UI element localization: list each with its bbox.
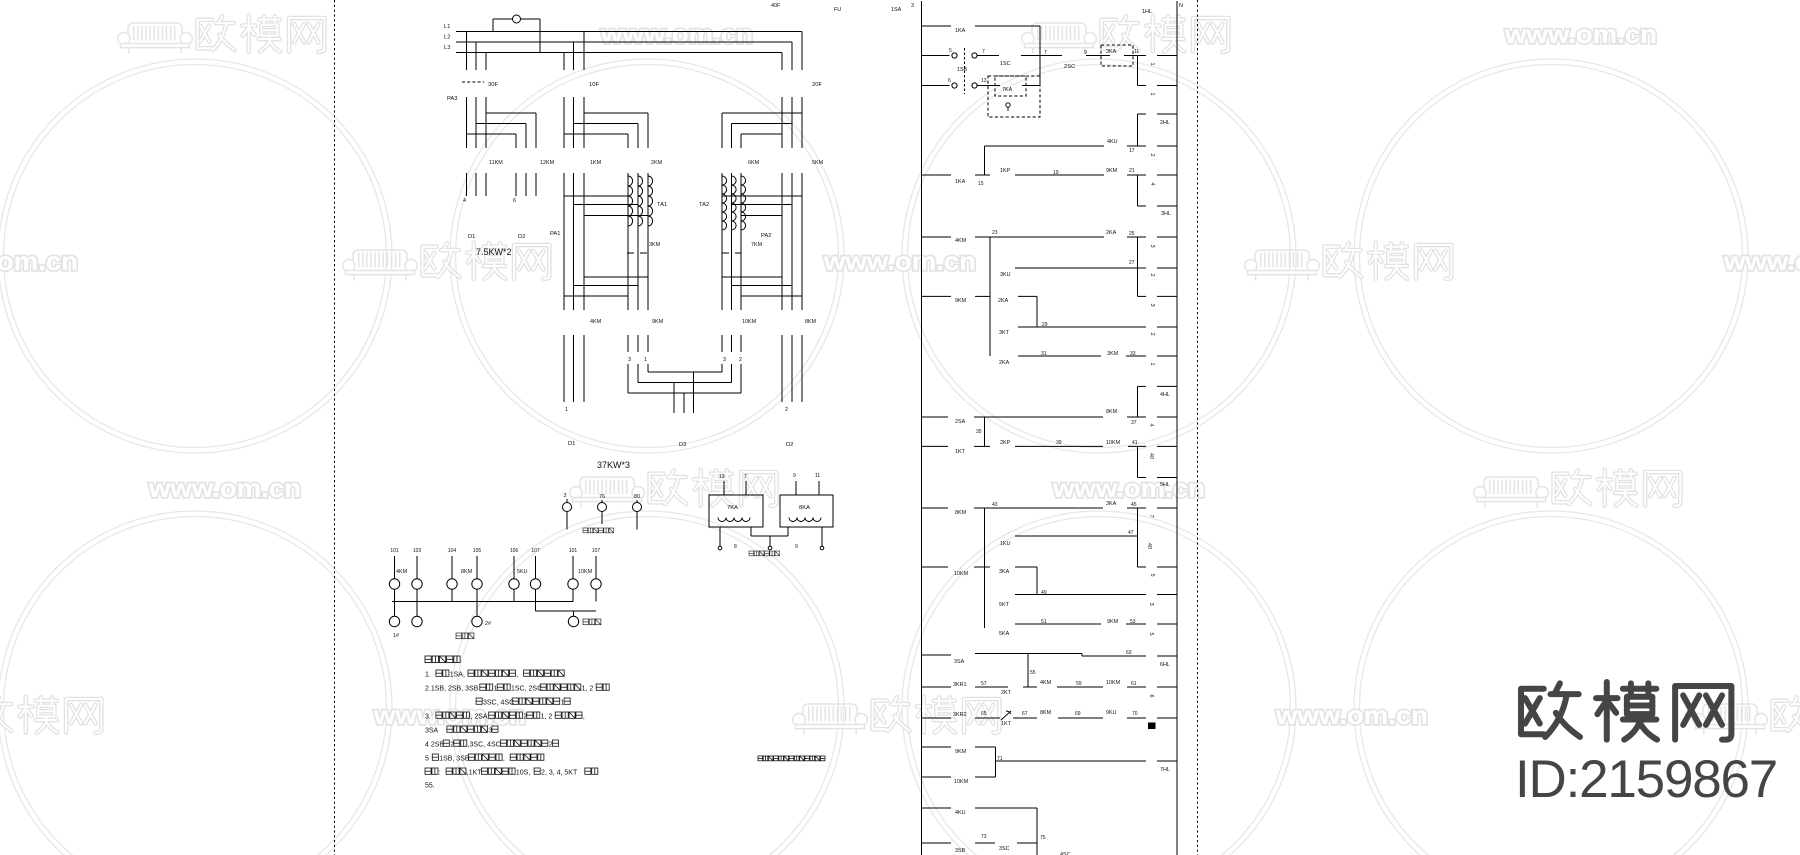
svg-text:www.om.cn: www.om.cn [1275,700,1428,730]
svg-text:2: 2 [785,407,788,413]
svg-text:1SB: 1SB [957,67,968,73]
svg-text:4KM: 4KM [1040,680,1052,686]
svg-text:35: 35 [976,429,982,435]
motor bus wires [648,371,722,373]
svg-text:,1KT: ,1KT [467,769,483,776]
rung 1KA latch wire [922,25,952,27]
svg-text:10KM: 10KM [578,569,593,575]
relay 7KA box [709,495,763,527]
svg-text:1: 1 [565,407,568,413]
svg-text:7: 7 [744,474,747,480]
rung 3SA-6HL [922,654,952,656]
rung 1KT-2KP-10KM [922,445,949,447]
svg-text:2, 3, 4, 5KT: 2, 3, 4, 5KT [541,769,578,776]
svg-text:27: 27 [1129,260,1135,266]
svg-text:3KM: 3KM [649,242,661,248]
svg-text:45: 45 [1131,502,1137,508]
svg-text:D1: D1 [468,234,475,240]
svg-text:75: 75 [1040,835,1046,841]
svg-text:1SC, 2SC: 1SC, 2SC [511,685,542,692]
svg-text:10S,: 10S, [516,769,530,776]
big watermark text OuMoWang [1521,683,1580,737]
rung start-stop: button 1SB [922,55,950,57]
svg-text:3KA: 3KA [1106,49,1117,55]
junction vertical 35 [984,417,986,446]
ladder left rail [921,1,923,855]
svg-text:5KA: 5KA [999,631,1010,637]
svg-text:9: 9 [793,473,796,479]
svg-text:9: 9 [795,544,798,550]
rung 3SB-3SC [922,842,952,844]
svg-text:5: 5 [1148,632,1154,635]
rung 10KM-3KA [922,566,949,568]
svg-text:1SB, 3SB: 1SB, 3SB [439,755,470,762]
svg-text:7KA: 7KA [727,505,738,511]
svg-text:L2: L2 [444,35,450,41]
svg-text:9KU: 9KU [1106,710,1117,716]
junction vertical 43 [984,508,986,628]
svg-text:1SC: 1SC [1000,61,1011,67]
rung 2SA-8KM [922,416,949,418]
svg-text:15: 15 [978,181,984,187]
svg-text:51: 51 [1041,619,1047,625]
rung 8KM-3KA coil7 [922,507,949,509]
svg-text:40: 40 [1146,543,1152,549]
svg-text:67: 67 [1022,711,1028,717]
svg-text:10KM: 10KM [954,571,969,577]
svg-text:2SA: 2SA [955,419,966,425]
svg-text:D2: D2 [786,442,793,448]
rung 10KM lamp7 [922,776,952,778]
svg-text:www.om.cn: www.om.cn [0,246,78,276]
svg-text:7: 7 [982,49,985,55]
tee wires to 10KM branch [722,276,782,278]
svg-text:6: 6 [1148,694,1154,697]
svg-text:6HL: 6HL [1160,662,1170,668]
svg-text:49: 49 [1041,590,1047,596]
pilot lamp 3 [636,500,638,503]
svg-text:80: 80 [634,494,640,500]
svg-text:12KM: 12KM [540,160,555,166]
svg-text:4KM: 4KM [396,569,408,575]
svg-text:2: 2 [1149,153,1155,156]
svg-text:9KM: 9KM [955,749,967,755]
svg-text:1.: 1. [425,671,431,678]
svg-text:2: 2 [1149,273,1155,276]
rung 4KM-2KA coil3 [922,236,952,238]
svg-text:57: 57 [981,681,987,687]
svg-text:7: 7 [1148,514,1154,517]
svg-text:4 2SB: 4 2SB [425,741,444,748]
svg-text:23: 23 [992,230,998,236]
coil 3 bracket [1137,237,1139,296]
svg-text:4HL: 4HL [1160,392,1170,398]
lamp 1# group [394,602,396,617]
junction vertical 15 [984,146,986,175]
split to 12KM branch [486,112,536,114]
svg-text:55.: 55. [425,782,435,789]
svg-text:2KP: 2KP [1000,440,1011,446]
svg-text:,: , [503,755,505,762]
svg-text:65: 65 [981,711,987,717]
svg-text:8KM: 8KM [461,569,473,575]
svg-text:101: 101 [569,548,578,554]
contact 3KA dashed box [1101,45,1133,66]
svg-text:3KA: 3KA [999,569,1010,575]
svg-text:7KM: 7KM [751,242,763,248]
rung 4KU [985,145,1105,147]
svg-text:1: 1 [644,357,647,363]
svg-text:10KM: 10KM [1106,680,1121,686]
svg-text:10KM: 10KM [1106,440,1121,446]
split to 6KM branch [722,112,802,114]
svg-text:6KM: 6KM [748,160,760,166]
svg-text:www.om.cn: www.om.cn [148,473,301,503]
svg-text:21: 21 [1129,168,1135,174]
lamp row bus [392,601,573,603]
svg-text:3SA: 3SA [425,727,439,734]
motor D3 drops [673,383,675,414]
lamp 4HL stub [1138,385,1147,387]
svg-text:www.om.cn: www.om.cn [823,246,976,276]
relay common link [750,527,752,536]
svg-text:8KM: 8KM [1040,710,1052,716]
CT TA1 [628,176,633,226]
svg-text:3: 3 [1149,244,1155,247]
svg-text:1: 1 [1149,362,1155,365]
indicator lamp 103 [416,556,418,579]
svg-text:www.om.cn: www.om.cn [1723,246,1800,276]
svg-text:1KA: 1KA [955,28,966,34]
svg-text:2KT: 2KT [1001,690,1012,696]
relay 8KA pins [795,481,797,495]
svg-text:7: 7 [1044,50,1047,56]
svg-text:3: 3 [564,493,567,499]
svg-text:5HL: 5HL [1160,482,1170,488]
lamp 2HL [1138,113,1147,115]
svg-text:55: 55 [1030,670,1036,676]
svg-text:5KM: 5KM [812,160,824,166]
breaker 30F [462,81,484,83]
svg-text:2KA: 2KA [1106,230,1117,236]
svg-text:8KM: 8KM [805,319,817,325]
lamp group caption [583,528,588,533]
svg-text:5: 5 [1149,573,1155,576]
tee wires to 9KM branch [584,276,648,278]
svg-text:1, 2: 1, 2 [541,713,553,720]
svg-text:TA1: TA1 [657,202,667,208]
svg-text:,3SC, 4SC: ,3SC, 4SC [468,741,501,748]
svg-text:3: 3 [1148,602,1154,605]
svg-text:2KM: 2KM [651,160,663,166]
svg-text:11: 11 [815,473,820,479]
svg-text:2: 2 [739,357,742,363]
ladder right rail N [1176,1,1178,855]
svg-text:TA2: TA2 [699,202,709,208]
svg-text:7.5KW*2: 7.5KW*2 [476,247,512,257]
svg-text:1SA,: 1SA, [450,671,465,678]
rung 9KM-2KA [922,295,952,297]
svg-text:4KU: 4KU [1107,139,1118,145]
svg-text:www.om.cn: www.om.cn [1504,19,1657,49]
svg-text:41: 41 [1132,440,1138,446]
svg-text:107: 107 [592,548,601,554]
drawing title caption [758,756,763,761]
svg-text:3: 3 [723,357,726,363]
svg-text:59: 59 [1076,681,1082,687]
svg-text:7HL: 7HL [1160,767,1170,773]
svg-text:39: 39 [1056,440,1062,446]
CT TA2 [722,176,727,230]
relay 7KA pins [723,481,725,495]
svg-text:3KT: 3KT [999,330,1010,336]
lamp spare group [535,602,537,612]
svg-text:N: N [1179,3,1183,9]
svg-text:5: 5 [949,48,952,54]
indicator lamp 106 [513,556,515,579]
svg-text:PA3: PA3 [447,96,458,102]
svg-text:1#: 1# [393,633,399,639]
svg-text::: : [439,769,441,776]
svg-text:13: 13 [981,78,987,84]
svg-text:8KA: 8KA [799,505,810,511]
svg-text:3.: 3. [425,713,431,720]
svg-text:2KA: 2KA [999,360,1010,366]
breaker 20F drops [801,32,803,71]
svg-text:37: 37 [1131,420,1137,426]
svg-text:, 2SA: , 2SA [470,713,487,720]
svg-text:9KM: 9KM [1106,168,1118,174]
svg-text:1KU: 1KU [1000,541,1011,547]
svg-text:43: 43 [992,502,998,508]
indicator lamp 101 [394,556,396,579]
svg-text:76: 76 [599,494,605,500]
svg-text:D1: D1 [568,441,575,447]
svg-text:1, 2: 1, 2 [582,685,594,692]
svg-text:3SA: 3SA [954,659,965,665]
ammeter loop on L1 [492,19,494,32]
svg-text:www.om.cn: www.om.cn [1052,473,1205,503]
svg-text:9KM: 9KM [652,319,664,325]
pilot lamp 2 [601,500,603,503]
svg-text:D2: D2 [518,234,525,240]
rung 3KR1 [922,686,952,688]
svg-text:D3: D3 [679,442,686,448]
junction vertical 29 [1036,296,1038,327]
svg-text:69: 69 [1075,711,1081,717]
svg-text:3SB: 3SB [955,848,966,854]
svg-text:4: 4 [1148,423,1154,426]
svg-text:31: 31 [1041,351,1047,357]
svg-text:9KM: 9KM [1107,619,1119,625]
rung 3KR2 timed [922,717,952,719]
notes title [425,656,431,663]
svg-text:3KA: 3KA [1106,501,1117,507]
svg-text:104: 104 [448,548,457,554]
contact 1SC [978,55,1000,57]
CT jog wires [564,195,628,197]
svg-text:106: 106 [510,548,519,554]
svg-text:4: 4 [1149,182,1155,185]
svg-text:30F: 30F [488,82,498,88]
frame dashed left border [334,0,336,855]
pilot lamp 1 [566,499,568,503]
svg-text:101: 101 [390,548,399,554]
indicator lamp 107 [535,556,537,579]
svg-text:ID:2159867: ID:2159867 [1515,750,1777,809]
lamp 3HL stub [1138,205,1147,207]
svg-text:40: 40 [1148,453,1154,459]
rung 9KM lamp7 [922,746,952,748]
rung 1KA-1KP-9KM [922,174,952,176]
svg-text:105: 105 [473,548,482,554]
terminal block mark [1148,723,1156,730]
svg-text:6: 6 [948,78,951,84]
coil 1 top [1137,56,1139,86]
svg-text:20F: 20F [812,82,822,88]
breaker 30F drops [466,32,468,71]
junction vertical 71 [995,747,997,777]
svg-text:3KM: 3KM [1107,351,1119,357]
svg-text:8KM: 8KM [955,510,967,516]
svg-text:2SC: 2SC [1064,64,1075,70]
breaker 10F drops [583,32,585,71]
svg-text:3HL: 3HL [1161,211,1171,217]
svg-text:3KR2: 3KR2 [953,712,967,718]
svg-text:10KM: 10KM [742,319,757,325]
svg-text:3KU: 3KU [1000,272,1011,278]
indicator lamp 105 [476,556,478,579]
junction vertical 75 [1036,808,1038,855]
svg-text:4KM: 4KM [955,238,967,244]
split to 2KM branch [584,112,648,114]
svg-text:3: 3 [911,3,914,9]
svg-text:,: , [516,671,518,678]
rung stop: button 1SB2 [922,85,950,87]
svg-text:107: 107 [531,548,540,554]
float switch 7KA dashed box [995,76,1026,96]
ammeter A [513,15,521,23]
svg-text:PA2: PA2 [761,233,772,239]
svg-text:5KT: 5KT [999,602,1010,608]
svg-text:3KR1: 3KR1 [953,682,967,688]
indicator lamp 104 [451,556,453,579]
svg-text:70: 70 [1132,711,1138,717]
svg-text:47: 47 [1128,530,1134,536]
svg-text:2.1SB, 2SB, 3SB: 2.1SB, 2SB, 3SB [425,685,479,692]
svg-text:19: 19 [1053,170,1059,176]
svg-text:10KM: 10KM [954,779,969,785]
svg-text:2KA: 2KA [998,298,1009,304]
svg-text:11: 11 [1134,49,1139,55]
svg-text:L3: L3 [444,45,450,51]
svg-text:13: 13 [719,474,725,480]
svg-text:1SA: 1SA [891,7,902,13]
svg-text:63: 63 [1126,650,1132,656]
wire to 7HL [996,760,1147,762]
svg-text:5: 5 [425,755,429,762]
svg-text:1: 1 [1149,92,1155,95]
junction vertical 55 [1027,654,1029,687]
lamp 5HL stub [1138,477,1147,479]
svg-text:5KU: 5KU [517,569,528,575]
svg-text:17: 17 [1129,148,1135,154]
junction vertical node 7 [1039,26,1041,86]
svg-text:25: 25 [1129,231,1135,237]
junction vertical 23 [989,237,991,356]
svg-text:1: 1 [1149,62,1155,65]
svg-text:www.om.cn: www.om.cn [600,19,753,49]
svg-text:L1: L1 [444,24,450,30]
frame dashed right border [1197,0,1199,855]
rung 4KU bottom [922,807,952,809]
junction vertical 49 [1036,567,1038,595]
svg-text:37KW*3: 37KW*3 [597,460,630,470]
coil stub 296 [1138,295,1147,297]
svg-text:103: 103 [413,548,422,554]
relay caption [749,551,754,556]
svg-text:7KA: 7KA [1002,87,1013,93]
indicator lamp 107 [595,556,597,579]
svg-text:4: 4 [463,198,466,204]
svg-text:3: 3 [628,357,631,363]
CT jog wires right [722,195,802,197]
svg-text:2#: 2# [485,621,491,627]
svg-text:8: 8 [734,544,737,550]
coil 7 bracket [1137,508,1139,567]
svg-text:1KA: 1KA [955,179,966,185]
svg-text:11KM: 11KM [489,160,503,166]
svg-text:61: 61 [1131,681,1137,687]
indicator lamp 101 [572,556,574,579]
lamp 2# group [476,602,478,617]
svg-text:FU: FU [834,7,841,13]
svg-text:1HL: 1HL [1142,9,1152,15]
svg-text:1KM: 1KM [590,160,602,166]
svg-text:1KT: 1KT [1001,721,1012,727]
svg-text:4KU: 4KU [955,810,966,816]
notes line 8 [425,768,431,774]
svg-text:2HL: 2HL [1160,120,1170,126]
svg-text:4KM: 4KM [590,319,602,325]
svg-text:,: , [583,713,585,720]
svg-text:9KM: 9KM [955,298,967,304]
relay 8KA box [780,495,833,527]
svg-text:3SC: 3SC [999,846,1010,852]
svg-text:3: 3 [1149,303,1155,306]
svg-text:1KT: 1KT [955,449,966,455]
coil 1 bottom stub [1138,85,1147,87]
svg-text:73: 73 [981,834,987,840]
svg-text:8KM: 8KM [1106,409,1118,415]
svg-text:2: 2 [1149,332,1155,335]
svg-text:6: 6 [513,198,516,204]
svg-text:PA1: PA1 [550,231,561,237]
svg-text:1KP: 1KP [1000,168,1011,174]
svg-text:10F: 10F [589,82,599,88]
svg-text:3SC, 4SC: 3SC, 4SC [483,699,514,706]
svg-text:40F: 40F [771,3,781,9]
